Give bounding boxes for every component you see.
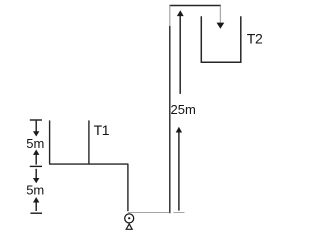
svg-text:5m: 5m bbox=[26, 136, 44, 151]
svg-text:5m: 5m bbox=[26, 182, 44, 197]
svg-text:T1: T1 bbox=[94, 122, 110, 138]
svg-text:T2: T2 bbox=[247, 31, 263, 47]
svg-text:25m: 25m bbox=[171, 102, 196, 117]
